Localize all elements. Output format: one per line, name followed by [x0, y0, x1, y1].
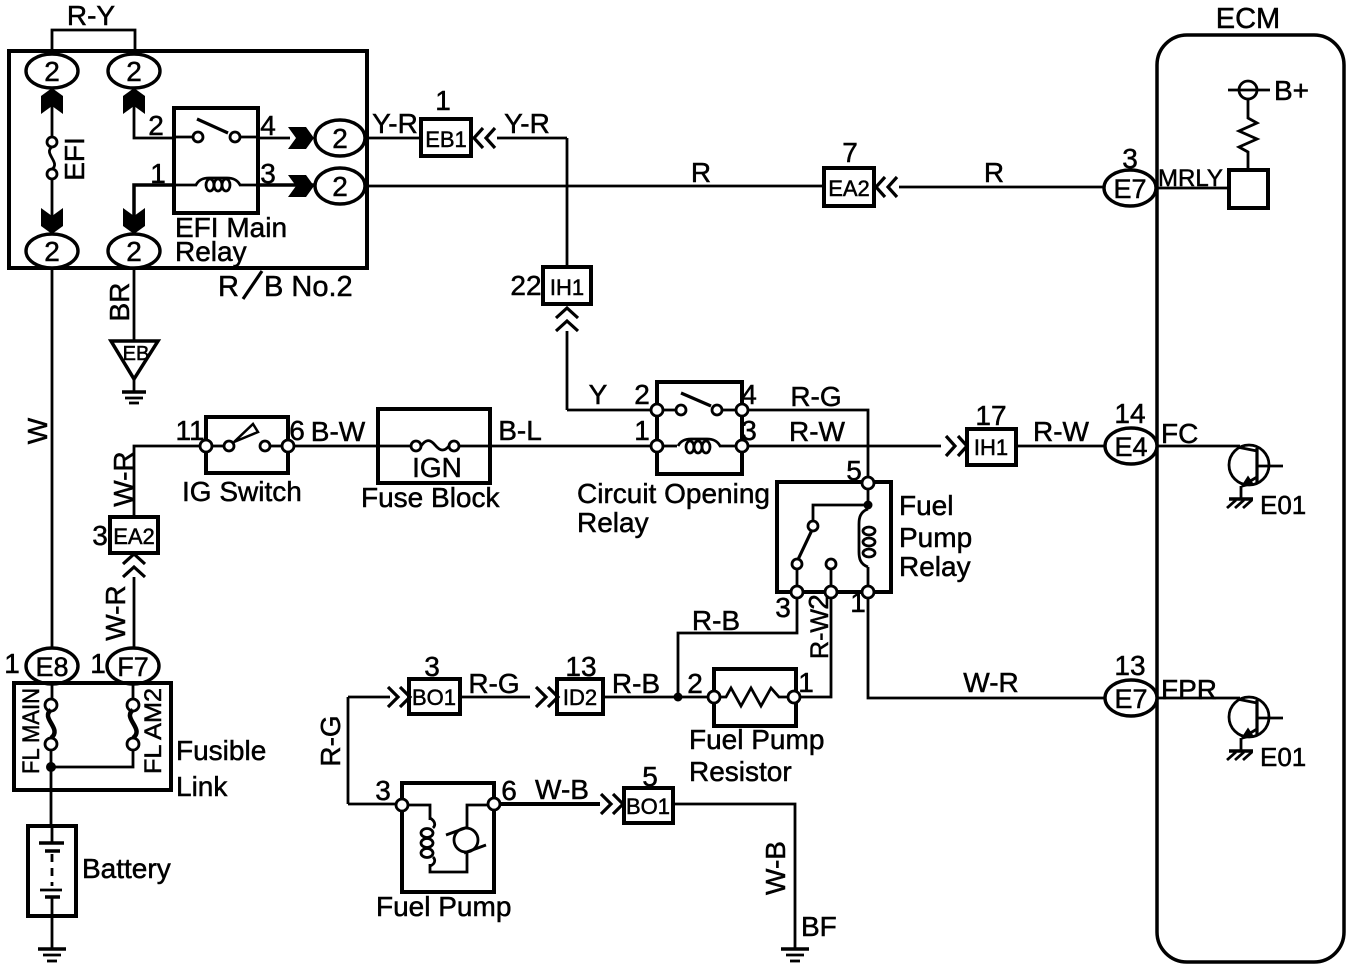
- svg-text:2: 2: [44, 236, 60, 267]
- svg-text:1: 1: [798, 667, 814, 698]
- svg-text:R: R: [984, 157, 1004, 188]
- svg-text:FL MAIN: FL MAIN: [18, 688, 45, 774]
- svg-text:BO1: BO1: [626, 794, 670, 819]
- svg-text:W-R: W-R: [108, 451, 139, 506]
- svg-text:Fusible: Fusible: [176, 735, 266, 766]
- svg-text:2: 2: [44, 56, 60, 87]
- svg-text:Resistor: Resistor: [689, 756, 792, 787]
- svg-text:E7: E7: [1114, 684, 1147, 714]
- svg-text:R: R: [218, 271, 239, 303]
- svg-text:R-G: R-G: [790, 381, 841, 412]
- svg-text:R-Y: R-Y: [67, 0, 116, 31]
- svg-text:EA2: EA2: [828, 176, 870, 201]
- svg-text:3: 3: [741, 415, 757, 446]
- svg-text:W-R: W-R: [963, 667, 1018, 698]
- svg-text:2: 2: [803, 594, 834, 610]
- svg-text:E01: E01: [1260, 742, 1306, 772]
- svg-text:EB: EB: [123, 343, 150, 365]
- svg-text:FC: FC: [1161, 418, 1198, 449]
- svg-text:1: 1: [850, 587, 866, 618]
- svg-text:Link: Link: [176, 771, 228, 802]
- svg-text:Battery: Battery: [82, 853, 171, 884]
- svg-text:Fuel: Fuel: [899, 490, 953, 521]
- svg-text:2: 2: [634, 379, 650, 410]
- svg-text:2: 2: [148, 110, 164, 141]
- svg-text:4: 4: [741, 379, 757, 410]
- svg-text:3: 3: [775, 592, 791, 623]
- svg-text:W-B: W-B: [760, 841, 791, 895]
- svg-text:4: 4: [260, 110, 276, 141]
- svg-text:2: 2: [332, 123, 348, 154]
- svg-text:FL AM2: FL AM2: [140, 688, 167, 774]
- svg-text:B-W: B-W: [311, 416, 366, 447]
- svg-text:3: 3: [1122, 143, 1138, 174]
- svg-text:FPR: FPR: [1161, 674, 1217, 705]
- svg-text:Relay: Relay: [899, 551, 971, 582]
- svg-text:IGN: IGN: [412, 452, 462, 483]
- svg-text:3: 3: [375, 775, 391, 806]
- svg-text:5: 5: [846, 455, 862, 486]
- svg-text:R-B: R-B: [612, 668, 660, 699]
- svg-text:17: 17: [975, 400, 1006, 431]
- svg-text:IH1: IH1: [550, 275, 584, 300]
- svg-text:1: 1: [150, 158, 166, 189]
- svg-text:Fuel Pump: Fuel Pump: [689, 724, 824, 755]
- svg-text:R-W: R-W: [1033, 416, 1090, 447]
- svg-text:MRLY: MRLY: [1158, 165, 1223, 192]
- svg-text:Pump: Pump: [899, 522, 972, 553]
- svg-text:B-L: B-L: [498, 415, 542, 446]
- svg-text:3: 3: [92, 520, 108, 551]
- svg-text:1: 1: [435, 85, 451, 116]
- svg-text:W-R: W-R: [100, 585, 131, 640]
- svg-text:2: 2: [332, 171, 348, 202]
- svg-text:22: 22: [510, 270, 541, 301]
- svg-text:IG Switch: IG Switch: [182, 476, 302, 507]
- svg-text:E4: E4: [1114, 432, 1147, 462]
- svg-text:6: 6: [501, 775, 517, 806]
- svg-text:13: 13: [1114, 650, 1145, 681]
- svg-text:Y-R: Y-R: [372, 108, 418, 139]
- svg-text:1: 1: [4, 648, 20, 679]
- svg-text:B No.2: B No.2: [264, 271, 353, 303]
- svg-text:R-B: R-B: [692, 605, 740, 636]
- svg-text:3: 3: [260, 158, 276, 189]
- svg-text:Y-R: Y-R: [504, 108, 550, 139]
- svg-text:Relay: Relay: [175, 236, 247, 267]
- svg-text:R-G: R-G: [468, 668, 519, 699]
- svg-text:EFI: EFI: [59, 137, 90, 181]
- svg-text:E7: E7: [1113, 174, 1146, 204]
- svg-text:B+: B+: [1274, 75, 1309, 106]
- svg-text:W: W: [22, 417, 53, 444]
- svg-text:BF: BF: [801, 911, 837, 942]
- svg-text:6: 6: [289, 415, 305, 446]
- svg-text:5: 5: [642, 761, 658, 792]
- svg-text:E8: E8: [35, 652, 68, 682]
- svg-text:Fuel Pump: Fuel Pump: [376, 891, 511, 922]
- svg-text:R-W: R-W: [789, 416, 846, 447]
- svg-text:Y: Y: [589, 379, 608, 410]
- svg-text:14: 14: [1114, 398, 1145, 429]
- svg-text:7: 7: [842, 137, 858, 168]
- svg-text:3: 3: [424, 651, 440, 682]
- svg-text:F7: F7: [117, 652, 149, 682]
- svg-text:W-B: W-B: [535, 774, 589, 805]
- svg-text:R-G: R-G: [315, 715, 346, 766]
- svg-text:ECM: ECM: [1216, 3, 1280, 35]
- svg-text:2: 2: [126, 56, 142, 87]
- svg-text:ID2: ID2: [563, 685, 597, 710]
- svg-text:2: 2: [126, 236, 142, 267]
- svg-text:13: 13: [565, 651, 596, 682]
- svg-text:2: 2: [687, 668, 703, 699]
- svg-text:Relay: Relay: [577, 507, 649, 538]
- svg-text:EA2: EA2: [113, 524, 155, 549]
- svg-text:BR: BR: [104, 283, 135, 322]
- svg-text:Circuit Opening: Circuit Opening: [577, 478, 770, 509]
- svg-text:R: R: [691, 157, 711, 188]
- svg-text:1: 1: [634, 415, 650, 446]
- svg-text:EB1: EB1: [425, 127, 467, 152]
- svg-text:Fuse Block: Fuse Block: [361, 482, 500, 513]
- svg-text:E01: E01: [1260, 490, 1306, 520]
- svg-text:11: 11: [175, 415, 204, 446]
- svg-text:IH1: IH1: [974, 435, 1008, 460]
- svg-text:1: 1: [90, 648, 106, 679]
- svg-text:BO1: BO1: [412, 685, 456, 710]
